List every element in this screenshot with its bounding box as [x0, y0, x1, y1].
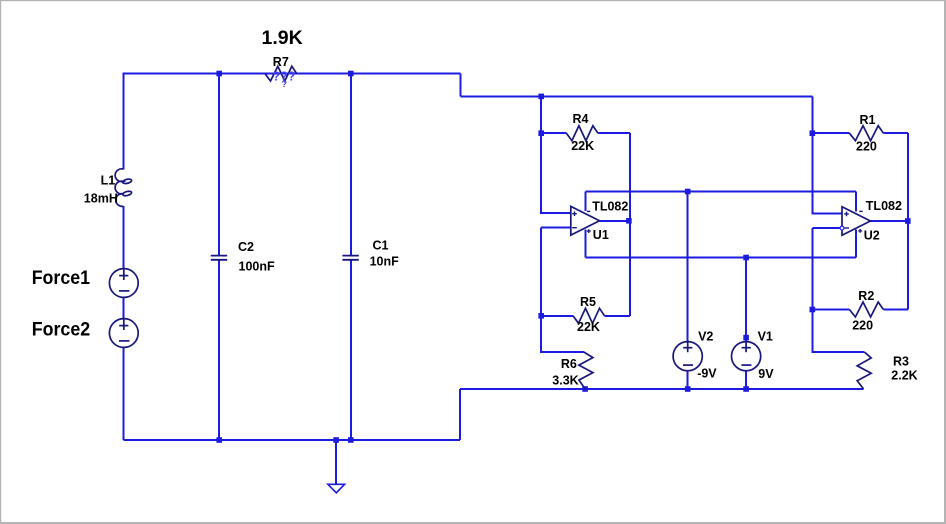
svg-text:C1: C1	[373, 238, 389, 252]
wire V1 bottom	[745, 371, 747, 390]
node R4 left junction	[538, 130, 544, 136]
wire top bus left segment	[123, 73, 460, 75]
svg-text:U1: U1	[593, 228, 609, 242]
wire R1 right lead	[883, 132, 907, 134]
svg-text:?: ?	[282, 79, 288, 89]
resistor R7	[265, 66, 297, 81]
voltage source Force2	[109, 319, 138, 348]
wire negative rail	[586, 191, 857, 193]
capacitor C2	[211, 256, 227, 260]
wire R4 right lead	[598, 132, 630, 134]
op-amp U1	[571, 206, 600, 235]
wire U1 output vertical	[629, 133, 631, 316]
svg-text:220: 220	[856, 140, 877, 154]
voltage source V1	[732, 342, 761, 371]
resistor R6	[579, 352, 593, 389]
voltage source Force1	[109, 269, 138, 298]
wire U1 output	[600, 220, 629, 222]
wire V1 top	[745, 258, 747, 343]
wire R1 left lead	[812, 132, 849, 134]
wire bottom step up	[459, 389, 461, 440]
resistor R3	[857, 352, 871, 389]
wire U2 Vminus stub	[855, 192, 857, 212]
inductor L1	[115, 169, 132, 207]
wire U2 output	[870, 220, 907, 222]
svg-text:TL082: TL082	[866, 199, 902, 213]
svg-text:2.2K: 2.2K	[891, 368, 917, 382]
wire R2 right lead	[883, 309, 907, 311]
wire U2 output vertical	[907, 133, 909, 309]
wire U1 inverting input	[541, 227, 571, 229]
ground	[328, 484, 345, 493]
wire top bus right segment	[460, 95, 812, 97]
wire left vertical upper	[122, 73, 124, 170]
wire R5 left lead	[541, 315, 573, 317]
svg-text:10nF: 10nF	[370, 254, 400, 268]
svg-text:Force1: Force1	[32, 267, 90, 289]
node C2 top junction	[216, 71, 222, 77]
node V2 bottom junction	[685, 386, 691, 392]
node U1 output junction	[626, 218, 632, 224]
node C1 top junction	[348, 71, 354, 77]
svg-text:R4: R4	[573, 112, 589, 126]
node R6 bottom junction	[582, 386, 588, 392]
node V1 bottom junction	[743, 386, 749, 392]
resistor R2	[849, 302, 883, 317]
svg-text:TL082: TL082	[592, 199, 628, 213]
node R1 left junction	[810, 130, 816, 136]
svg-text:L1: L1	[101, 173, 116, 187]
wire R4 left lead	[541, 132, 566, 134]
wire R5 right lead	[605, 315, 631, 317]
wire U1 noninverting input	[541, 96, 571, 213]
svg-text:22K: 22K	[571, 139, 594, 153]
wire U2 noninverting input	[812, 96, 842, 213]
svg-text:R3: R3	[893, 355, 909, 369]
voltage source V2	[673, 342, 702, 371]
wire left vertical between L1 and Force1	[122, 206, 124, 269]
svg-text:V1: V1	[758, 330, 773, 344]
wire bottom bus right	[460, 388, 864, 390]
svg-text:R1: R1	[860, 113, 876, 127]
svg-text:R6: R6	[561, 357, 577, 371]
wire U2 inverting input	[812, 227, 842, 229]
wire U1 Vminus stub	[585, 192, 587, 212]
svg-text:R5: R5	[580, 295, 596, 309]
wire V2 bottom	[687, 371, 689, 390]
node V2 rail junction	[685, 189, 691, 195]
node U1 plus branch junction	[538, 94, 544, 100]
svg-text:9V: 9V	[758, 367, 774, 381]
svg-text:100nF: 100nF	[239, 259, 275, 273]
wire left vertical lower	[122, 347, 124, 440]
wire step down	[459, 74, 461, 97]
node U2 output junction	[905, 218, 911, 224]
resistor R4	[566, 126, 598, 141]
wire U1 Vplus stub	[585, 229, 587, 257]
capacitor C1	[342, 256, 358, 260]
node V1 rail junction	[743, 255, 749, 261]
svg-text:V2: V2	[698, 330, 713, 344]
svg-text:3.3K: 3.3K	[552, 374, 578, 388]
svg-text:C2: C2	[238, 240, 254, 254]
node C1 bottom junction	[348, 437, 354, 443]
wire C2 branch lower	[218, 260, 220, 440]
wire U2 Vplus stub	[855, 230, 857, 258]
svg-text:U2: U2	[864, 229, 880, 243]
node R2 left junction	[810, 307, 816, 313]
svg-text:22K: 22K	[577, 320, 600, 334]
wire between Force1 and Force2	[122, 297, 124, 319]
wire R2 left lead	[812, 309, 849, 311]
wire C1 branch lower	[350, 260, 352, 440]
svg-text:R7: R7	[273, 55, 289, 69]
op-amp U2	[840, 207, 870, 236]
svg-text:R2: R2	[858, 289, 874, 303]
wire C1 branch upper	[350, 74, 352, 256]
svg-text:1.9K: 1.9K	[262, 27, 303, 49]
wire V2 top	[687, 192, 689, 343]
wire U1 inverting feedback vertical	[541, 228, 584, 352]
wire positive rail	[586, 257, 857, 259]
svg-text:220: 220	[852, 319, 873, 333]
node ground junction	[333, 437, 339, 443]
svg-text:-9V: -9V	[697, 367, 717, 381]
wire C2 branch upper	[218, 74, 220, 256]
resistor R1	[849, 126, 883, 141]
resistor R5	[573, 308, 605, 323]
svg-text:18mH: 18mH	[84, 192, 118, 206]
wire bottom bus left	[123, 439, 460, 441]
node C2 bottom junction	[216, 437, 222, 443]
wire U2 inverting feedback vertical	[812, 228, 864, 352]
wire ground stub	[335, 440, 337, 485]
node V1 pin square	[743, 335, 749, 341]
node R5 left junction	[538, 313, 544, 319]
svg-text:Force2: Force2	[32, 318, 91, 340]
